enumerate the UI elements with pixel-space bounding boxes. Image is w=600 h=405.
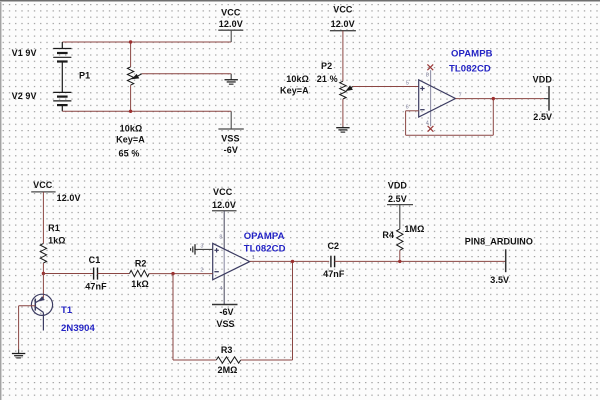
svg-text:7: 7 <box>459 92 462 98</box>
svg-text:R3: R3 <box>221 345 233 355</box>
wire U1B output <box>456 98 545 100</box>
transistor T1 <box>31 294 52 330</box>
svg-text:2.5V: 2.5V <box>533 112 552 122</box>
battery V1 <box>53 49 71 62</box>
terminal VDD B stub <box>544 98 549 100</box>
svg-text:VSS: VSS <box>216 319 234 329</box>
svg-text:VCC: VCC <box>33 180 53 190</box>
ground P1 wiper <box>225 74 238 84</box>
pin 6 U1B <box>406 105 409 111</box>
svg-text:65 %: 65 % <box>119 149 140 159</box>
svg-text:OPAMPA: OPAMPA <box>244 231 285 242</box>
wire VSS stub <box>230 111 232 129</box>
label V1 9V <box>12 48 37 58</box>
svg-text:V2 9V: V2 9V <box>12 91 37 101</box>
label R3 <box>221 345 233 355</box>
terminal VDD B bar <box>548 86 550 111</box>
svg-text:VSS: VSS <box>221 134 239 144</box>
wire VCC to P2 <box>342 31 344 81</box>
svg-text:3: 3 <box>200 244 203 250</box>
node junction R4 <box>398 260 401 263</box>
svg-text:12.0V: 12.0V <box>331 19 355 29</box>
svg-text:12.0V: 12.0V <box>212 200 236 210</box>
svg-text:1MΩ: 1MΩ <box>404 224 424 234</box>
op-amp U1A power pin line <box>223 211 225 305</box>
wire R1 to junction <box>42 263 44 274</box>
svg-text:VDD: VDD <box>533 74 553 84</box>
label P1 65 % <box>119 149 140 159</box>
power VDD R4 <box>387 204 413 206</box>
pin 1 U1A <box>252 255 255 261</box>
svg-text:4: 4 <box>219 286 222 292</box>
label 2.5V B <box>533 112 552 122</box>
label VDD B <box>533 74 553 84</box>
svg-text:C1: C1 <box>89 255 101 265</box>
node junction bottom rail P1 <box>129 110 132 113</box>
svg-text:2N3904: 2N3904 <box>61 323 95 334</box>
node junction R3 output <box>291 260 294 263</box>
wire top rail battery to VCC stub <box>62 41 231 43</box>
label 12.0V top <box>219 19 243 29</box>
ground T1 <box>12 350 25 358</box>
resistor R2 <box>130 270 150 276</box>
svg-text:1kΩ: 1kΩ <box>131 279 149 289</box>
label 2N3904 <box>61 323 95 334</box>
pin 5 U1B <box>406 80 409 86</box>
label P2 10k <box>286 74 309 84</box>
svg-text:-6V: -6V <box>219 307 233 317</box>
svg-text:6: 6 <box>406 105 409 111</box>
resistor R3 <box>216 357 240 363</box>
label VSS <box>221 134 239 144</box>
svg-text:Key=A: Key=A <box>116 135 145 145</box>
capacitor C1 <box>94 268 98 280</box>
svg-text:47nF: 47nF <box>85 281 107 291</box>
label R1 1k <box>48 235 66 245</box>
svg-text:4: 4 <box>426 121 429 127</box>
wire C1 to R2 <box>98 273 130 275</box>
svg-text:1: 1 <box>252 255 255 261</box>
wire R3 to output <box>241 261 293 360</box>
svg-text:8: 8 <box>219 235 222 241</box>
pin 7 U1B <box>459 92 462 98</box>
label P2 <box>321 61 332 71</box>
pin 3 U1A <box>200 244 203 250</box>
wire T1 base <box>19 305 36 307</box>
label VCC P2 <box>333 4 353 14</box>
no-connect X bottom U1B <box>428 126 434 132</box>
svg-text:OPAMPB: OPAMPB <box>451 48 493 59</box>
svg-text:C2: C2 <box>327 241 339 251</box>
svg-text:47nF: 47nF <box>323 269 345 279</box>
label P2 21 % <box>317 74 338 84</box>
wire feedback down <box>172 274 174 360</box>
svg-text:P2: P2 <box>321 61 332 71</box>
label TL082CD B <box>449 63 491 74</box>
battery V1 top lead <box>61 42 63 49</box>
svg-text:10kΩ: 10kΩ <box>286 74 309 84</box>
svg-text:1kΩ: 1kΩ <box>48 235 66 245</box>
wire U1A output <box>250 260 330 262</box>
terminal PIN8_ARDUINO bar <box>505 249 507 272</box>
svg-text:TL082CD: TL082CD <box>449 63 491 74</box>
P1 wiper arrow <box>132 74 142 79</box>
ground U1A noninverting input <box>191 244 213 254</box>
battery V2 <box>53 92 71 105</box>
svg-text:12.0V: 12.0V <box>219 19 243 29</box>
wire P2 bottom lead <box>342 99 344 127</box>
wire bottom rail battery to VSS stub <box>62 110 231 112</box>
svg-text:VCC: VCC <box>333 4 353 14</box>
wire P1 wiper to ground <box>142 73 231 75</box>
wire C2 to terminal <box>335 260 506 262</box>
power VCC A <box>212 210 237 212</box>
wire R2 to opamp A <box>149 273 213 275</box>
svg-text:VCC: VCC <box>213 187 233 197</box>
svg-text:2: 2 <box>200 268 203 274</box>
P2 wiper arrow <box>346 86 353 91</box>
svg-text:2.5V: 2.5V <box>388 194 407 204</box>
label 3.5V <box>490 275 509 285</box>
label V2 9V <box>12 91 37 101</box>
power VSS A bar <box>212 304 238 306</box>
wire U1B feedback <box>406 99 494 136</box>
svg-text:Key=A: Key=A <box>280 86 309 96</box>
label VCC A <box>213 187 233 197</box>
svg-text:R4: R4 <box>382 230 394 240</box>
wire R4 to junction <box>399 250 401 261</box>
wire VDD to R4 <box>399 205 401 229</box>
potentiometer P1 <box>127 67 133 85</box>
svg-text:PIN8_ARDUINO: PIN8_ARDUINO <box>465 237 533 247</box>
wire P1 top lead <box>130 42 132 67</box>
label TL082CD A <box>244 243 286 254</box>
svg-text:12.0V: 12.0V <box>57 193 81 203</box>
label VSS -6V <box>224 145 238 155</box>
label 2.5V R4 <box>388 194 407 204</box>
label 12.0V A <box>212 200 236 210</box>
label R4 1M <box>404 224 424 234</box>
pin 4 U1B <box>426 121 429 127</box>
svg-text:5: 5 <box>406 80 409 86</box>
label C2 47nF <box>323 269 345 279</box>
op-amp U1B power pin line <box>430 70 432 126</box>
label R2 <box>135 259 147 269</box>
svg-text:2MΩ: 2MΩ <box>217 365 237 375</box>
svg-text:VCC: VCC <box>221 7 241 17</box>
label OPAMPB <box>451 48 493 59</box>
node feedback junction <box>171 272 174 275</box>
label P1 <box>79 71 90 81</box>
pin 2 U1A <box>200 268 203 274</box>
label 12.0V R1 <box>57 193 81 203</box>
wire battery V1 to V2 <box>61 62 63 93</box>
label PIN8_ARDUINO <box>465 237 533 247</box>
resistor R1 <box>40 244 46 264</box>
label R4 <box>382 230 394 240</box>
svg-text:T1: T1 <box>61 305 73 316</box>
label VDD R4 <box>388 180 408 190</box>
label P1 Key=A <box>116 135 145 145</box>
capacitor C2 <box>331 256 335 268</box>
node collector junction <box>42 272 45 275</box>
label C1 <box>89 255 101 265</box>
power VCC R1 <box>31 191 55 193</box>
svg-text:P1: P1 <box>79 71 90 81</box>
node junction top rail P1 <box>129 40 132 43</box>
power VCC P2 <box>330 30 356 32</box>
power VSS bar <box>218 128 243 130</box>
svg-text:V1 9V: V1 9V <box>12 48 37 58</box>
wire junction to T1 collector <box>42 274 44 299</box>
svg-text:R2: R2 <box>135 259 147 269</box>
node junction U1B output <box>492 97 495 100</box>
op-amp U1B <box>419 80 456 117</box>
label VCC top <box>221 7 241 17</box>
label -6V A <box>219 307 233 317</box>
svg-text:21 %: 21 % <box>317 74 338 84</box>
wire base to ground <box>18 306 20 350</box>
label R1 <box>48 223 60 233</box>
wire P1 bottom lead <box>130 85 132 111</box>
potentiometer P2 <box>340 81 346 99</box>
wire junction to C1 <box>43 273 93 275</box>
pin 8 U1A <box>219 235 222 241</box>
label P1 10k <box>120 123 143 133</box>
wire feedback to R3 <box>173 359 216 361</box>
label 12.0V P2 <box>331 19 355 29</box>
label C2 <box>327 241 339 251</box>
svg-text:VDD: VDD <box>388 180 408 190</box>
label C1 47nF <box>85 281 107 291</box>
svg-text:-6V: -6V <box>224 145 238 155</box>
ground P2 <box>336 127 349 133</box>
battery V2 bottom lead <box>61 105 63 111</box>
label OPAMPA <box>244 231 285 242</box>
pin 4 U1A <box>219 286 222 292</box>
svg-text:10kΩ: 10kΩ <box>120 123 143 133</box>
resistor R4 <box>397 229 403 250</box>
power VCC top <box>218 30 243 42</box>
label VCC R1 <box>33 180 53 190</box>
svg-text:8: 8 <box>426 73 429 79</box>
label VSS A <box>216 319 234 329</box>
op-amp U1A <box>213 243 250 279</box>
svg-text:TL082CD: TL082CD <box>244 243 286 254</box>
pin 8 U1B <box>426 73 429 79</box>
label R3 2M <box>217 365 237 375</box>
svg-text:R1: R1 <box>48 223 60 233</box>
label R2 1k <box>131 279 149 289</box>
svg-text:3.5V: 3.5V <box>490 275 509 285</box>
wire P2 wiper to opamp B <box>353 86 419 88</box>
no-connect X top U1B <box>427 64 433 70</box>
label T1 <box>61 305 73 316</box>
label P2 Key=A <box>280 86 309 96</box>
wire VCC to R1 <box>42 192 44 244</box>
